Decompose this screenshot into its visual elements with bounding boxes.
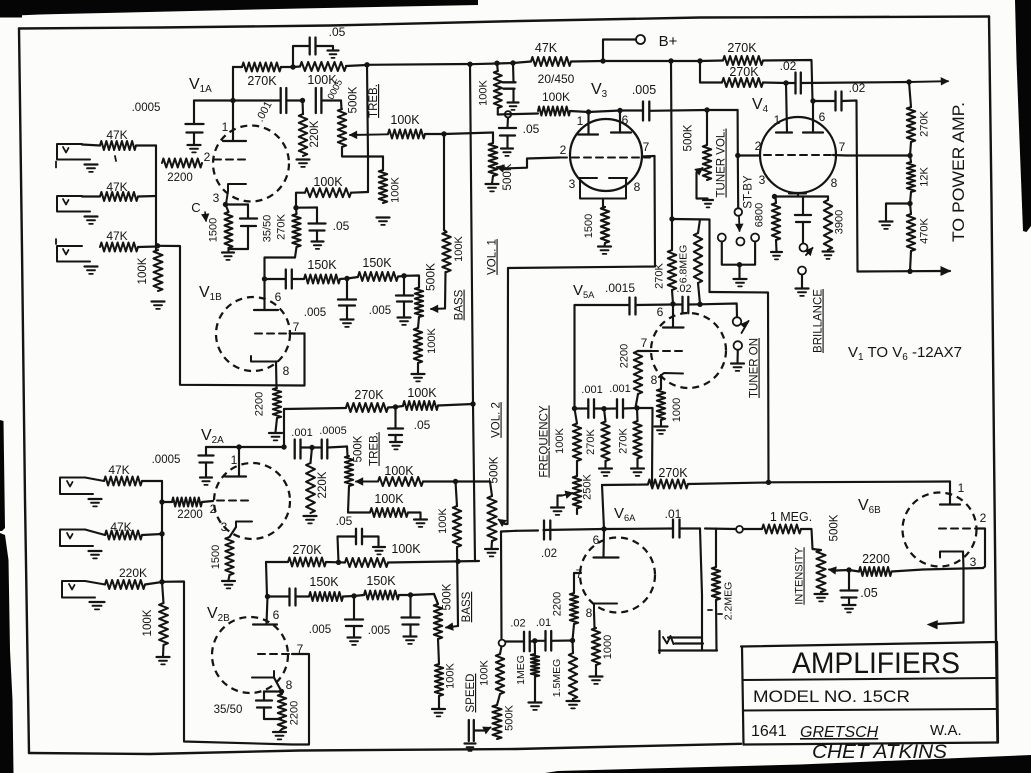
wire long vertical bus ch1 [470,64,473,404]
svg-text:.001: .001 [254,99,275,124]
svg-text:100K: 100K [407,386,437,400]
wire V6A grid corner [602,485,604,529]
wire freq out [637,408,653,484]
wire to V1A grid [158,246,305,386]
border frame [19,17,989,29]
wiper arrow speed [484,728,491,731]
wire [138,245,158,248]
ground [348,636,361,638]
svg-text:AMPLIFIERS: AMPLIFIERS [792,647,960,680]
wire plate to top rail [232,67,234,101]
svg-text:270K: 270K [658,466,688,480]
wire vol1 vertical [367,65,368,157]
resistor 2200 grid stopper V2A [172,498,202,507]
node [634,405,639,410]
ground [414,518,427,520]
svg-text:220K: 220K [119,566,147,580]
svg-text:1500: 1500 [208,218,220,242]
ground [590,675,603,677]
wiper arrow freq [562,493,573,496]
ground [734,278,747,280]
node [572,406,577,411]
wire to V2B grid loop [162,582,309,745]
switch TUNER ON contact 1 [733,317,742,326]
cathode V6B [940,552,963,558]
svg-text:500K: 500K [442,583,454,610]
jack J1 [57,144,90,160]
svg-text:7: 7 [641,336,648,350]
ground [598,245,611,247]
ground [398,316,411,318]
plate 2 V3 [619,111,621,133]
svg-text:500K: 500K [489,456,501,483]
wire to tremolo jack [700,529,702,651]
wiper arrow vol1 to V3 grid [497,167,504,169]
jack J5 [60,530,93,547]
svg-text:100K: 100K [542,90,570,104]
wire down to speed row [500,532,503,640]
ground [152,300,165,302]
svg-text:6: 6 [593,533,600,547]
svg-text:100K: 100K [390,113,420,127]
title block box [741,642,997,647]
svg-text:100K: 100K [478,79,490,105]
wire plate row V2A [206,446,239,448]
svg-text:1MEG: 1MEG [515,655,527,685]
wire to V4 grid [737,110,739,156]
svg-text:250K: 250K [582,473,594,499]
svg-text:12K: 12K [919,167,931,187]
ground jack J4 [89,498,102,500]
node [586,109,591,114]
svg-text:FREQUENCY: FREQUENCY [539,405,551,478]
svg-text:2200: 2200 [289,701,301,725]
jack J6 [62,581,95,598]
node [570,638,575,643]
svg-text:270K: 270K [247,74,277,88]
ground [412,373,425,375]
ground [501,147,513,149]
svg-text:20/450: 20/450 [538,72,575,86]
cathode V1A [226,184,246,204]
svg-text:2: 2 [560,143,567,157]
svg-text:500K: 500K [504,704,516,730]
svg-text:6: 6 [622,113,629,127]
svg-text:7: 7 [643,140,650,154]
svg-text:2200: 2200 [177,509,203,521]
ground [465,742,476,744]
ground [843,604,856,606]
wire jack bus 1 [155,146,157,251]
node [393,404,398,409]
svg-text:150K: 150K [362,256,392,270]
svg-text:100K: 100K [374,492,404,506]
plate V5A [672,304,674,327]
svg-text:SPEED: SPEED [465,674,477,713]
svg-text:8: 8 [651,373,658,387]
node plate V2B [265,594,270,599]
svg-text:.005: .005 [369,305,391,317]
svg-text:150K: 150K [366,574,396,588]
capacitor coupling V2B [268,595,290,597]
cathode V2A [236,522,252,528]
svg-text:3: 3 [213,191,220,205]
svg-text:2200: 2200 [254,392,266,416]
node [601,406,606,411]
wire [82,145,100,146]
svg-text:INTENSITY: INTENSITY [794,547,806,605]
cathode V1B [251,356,277,362]
wire tuner line to V6B [710,292,769,482]
capacitor coupling V1B [265,278,286,280]
svg-text:.05: .05 [523,122,540,136]
svg-text:2: 2 [755,139,762,153]
node plate V1A [230,98,235,103]
wire .0015 to frequency row [575,304,630,306]
plate 2 V4 [812,101,814,133]
jack J3 [57,246,90,262]
node [735,153,740,158]
node [441,131,446,136]
ground [771,251,782,253]
svg-text:1000: 1000 [671,398,683,422]
wiper arrow vol2 [499,520,506,525]
svg-text:1: 1 [231,453,238,467]
wiper arrow bass ch2 [446,626,458,628]
svg-text:V6B: V6B [858,497,881,516]
node [336,560,341,565]
rail 270K-100K V2B [266,562,267,597]
svg-text:.05: .05 [414,418,431,432]
svg-text:6: 6 [657,305,664,319]
wire V6A rail left [544,529,605,530]
node [532,638,537,643]
svg-text:100K: 100K [384,464,414,478]
wire cathode row [923,568,983,570]
ground [703,199,713,201]
svg-text:MODEL NO. 15CR: MODEL NO. 15CR [753,687,910,706]
svg-text:47K: 47K [108,463,129,477]
ground jack J6 [90,601,105,603]
svg-text:V2A: V2A [201,427,224,446]
svg-text:1: 1 [774,113,781,127]
ground [567,700,580,702]
node V4 plate b junction [810,98,815,103]
svg-text:.005: .005 [304,307,326,319]
node [772,194,777,199]
resistor 2200 grid stopper V1A [162,159,202,168]
switch lever [738,217,741,231]
svg-text:1: 1 [222,120,229,134]
svg-text:100K: 100K [554,427,566,453]
plate V2B [267,597,268,625]
svg-text:6: 6 [273,608,280,622]
svg-text:1641: 1641 [751,723,787,740]
svg-text:.001: .001 [609,383,630,395]
svg-text:.005: .005 [632,83,656,97]
svg-text:1: 1 [577,114,584,128]
node [670,301,675,306]
svg-text:V3: V3 [591,81,608,100]
ground [823,250,834,252]
ground [390,441,402,443]
plate V6B [940,503,960,505]
wire grid V6A [574,573,581,593]
node [262,276,267,281]
svg-text:220K: 220K [317,471,329,498]
svg-text:100K: 100K [426,327,438,353]
plate V1A [223,140,246,142]
svg-text:.0005: .0005 [319,425,347,437]
svg-text:.0005: .0005 [132,102,161,114]
svg-text:3: 3 [221,520,228,534]
svg-text:3: 3 [970,555,977,569]
svg-text:7: 7 [293,320,300,334]
wire vol2 wiper to V3 grid [505,156,655,524]
node [846,567,851,572]
svg-text:270K: 270K [654,262,666,288]
svg-text:.01: .01 [536,617,551,629]
svg-text:100K: 100K [437,507,449,533]
svg-text:BRILLANCE: BRILLANCE [813,289,825,353]
svg-text:6: 6 [275,290,282,304]
node [697,58,702,63]
wire arrow to power amp [801,82,909,83]
node [309,445,314,450]
wire [265,247,297,279]
svg-text:35/50: 35/50 [262,215,274,243]
ground jack J5 [89,550,102,552]
switch contacts [718,234,726,242]
svg-text:6800: 6800 [754,203,766,227]
triode V3 [570,119,642,191]
triode V1B [216,297,290,371]
triode V6B [903,493,977,567]
ground [529,701,542,703]
title row line 1 [742,678,995,680]
svg-text:.05: .05 [329,25,346,39]
svg-text:2: 2 [204,150,211,164]
cathode V4 [789,194,806,197]
svg-text:V2B: V2B [207,605,230,624]
terminal B+ [636,35,645,44]
jack J4 [60,478,93,495]
node [455,559,460,564]
svg-text:1 MEG.: 1 MEG. [770,510,812,524]
svg-text:8: 8 [831,176,838,190]
svg-text:.05: .05 [336,514,353,528]
svg-text:TREB.: TREB. [369,432,381,466]
svg-text:.0015: .0015 [605,281,635,295]
ground [432,708,445,710]
svg-text:.001: .001 [291,427,312,439]
svg-text:150K: 150K [309,575,339,589]
svg-text:47K: 47K [535,41,558,55]
node [290,64,295,69]
ground [377,216,390,218]
node [159,531,164,536]
wire intensity rail [705,527,736,530]
svg-text:.05: .05 [860,586,877,600]
node [281,444,286,449]
ground [341,318,354,320]
svg-text:1000: 1000 [602,635,614,659]
ground [188,144,201,146]
wire [82,195,100,197]
svg-text:C: C [191,200,200,215]
node [494,61,499,66]
ground jack J3 [85,265,98,267]
svg-text:500K: 500K [424,263,438,291]
svg-text:.02: .02 [849,81,866,95]
wiper arrow tuner vol [697,168,703,173]
ground [655,425,668,427]
jack J2 [57,196,90,212]
ground [312,240,324,242]
svg-text:150K: 150K [307,258,337,272]
svg-text:2.2MEG: 2.2MEG [723,582,735,621]
svg-text:2200: 2200 [619,344,631,368]
node [907,269,912,274]
svg-text:1500: 1500 [583,214,595,238]
svg-text:35/50: 35/50 [214,704,243,716]
node cathode V1A [223,202,228,207]
node [408,592,413,597]
ground [373,546,385,548]
wire 6.8MEG node [671,61,672,219]
node junction jack bus [155,243,160,248]
svg-text:6: 6 [819,110,826,124]
svg-text:2: 2 [210,502,217,516]
ground [485,548,498,550]
svg-text:6.8MEG: 6.8MEG [678,245,690,284]
svg-text:.02: .02 [676,283,691,295]
triode V6A [580,538,655,613]
node [697,302,702,307]
node [906,79,911,84]
svg-text:270K: 270K [276,213,288,239]
svg-text:2: 2 [980,511,987,525]
plate V1B [254,309,278,311]
triode V1A [213,126,289,202]
node [470,401,475,406]
ground [631,467,644,469]
node [300,98,305,103]
plate V2A [238,447,240,476]
svg-text:100K: 100K [137,257,149,284]
svg-text:.02: .02 [541,548,557,560]
svg-text:7: 7 [839,140,846,154]
svg-text:.05: .05 [333,219,350,233]
node [364,62,369,67]
capacitor speed wiper [468,720,470,741]
node plate V1B [293,205,298,210]
ground [273,731,286,733]
node [453,479,458,484]
svg-text:100K: 100K [391,542,421,556]
svg-text:100K: 100K [313,175,343,189]
svg-text:100K: 100K [479,659,491,685]
svg-text:V5A: V5A [573,282,595,300]
wire to ground [886,204,910,222]
wire to tuner-on switch [700,304,737,318]
switch brilliance contact 2 [798,267,806,275]
node [351,593,356,598]
cathode V3 [579,178,627,199]
wire top rail to V3 [367,63,470,66]
svg-text:TREB.: TREB. [368,84,380,118]
ground [486,183,499,185]
capacitor brilliance [802,197,804,215]
switch TUNER ON lever [742,321,749,333]
svg-text:270K: 270K [292,543,322,557]
svg-text:500K: 500K [683,124,695,151]
node [159,579,164,584]
scan black band top [0,0,478,18]
ground [269,432,282,434]
node [601,526,606,531]
wire pot bottom [342,147,383,157]
svg-text:1: 1 [958,481,965,495]
svg-text:V1 TO V6 -12AX7: V1 TO V6 -12AX7 [848,344,962,363]
wire switch to ground [722,242,755,265]
svg-text:V6A: V6A [614,505,636,523]
svg-text:3900: 3900 [834,210,846,234]
wire jack bus 2 [142,480,162,482]
node [907,153,912,158]
cathode V5A [659,373,683,377]
svg-text:TUNER VOL.: TUNER VOL. [716,128,728,197]
node [279,689,284,694]
svg-text:B+: B+ [659,33,678,50]
svg-text:100K: 100K [390,176,402,202]
svg-text:47K: 47K [106,128,127,142]
ground [508,101,519,103]
svg-text:100K: 100K [142,609,154,636]
scan black strip left edge [0,420,5,531]
ground [599,467,612,469]
node [600,58,605,63]
node [668,58,673,63]
svg-text:.02: .02 [510,618,525,630]
plate 1 V3 [587,112,589,135]
svg-text:100K: 100K [453,235,465,261]
svg-text:BASS: BASS [461,591,473,622]
svg-text:1.5MEG: 1.5MEG [551,659,563,698]
svg-text:2200: 2200 [167,172,193,184]
svg-text:270K: 270K [618,427,630,453]
ground jack J1 [85,163,98,165]
resistor 100K to V3 plate [538,107,570,116]
svg-text:2200: 2200 [552,592,564,616]
terminal ring [505,111,511,117]
svg-text:270K: 270K [729,65,759,79]
ground [222,580,235,582]
node [159,499,164,504]
ground [880,220,893,222]
svg-text:V1A: V1A [189,76,212,95]
node [236,444,241,449]
wire grid V6B [977,529,986,569]
wire plate V6B feed [769,480,951,483]
svg-text:W.A.: W.A. [930,722,962,739]
triode V4 [760,117,836,193]
svg-text:270K: 270K [585,428,597,454]
ground [157,656,170,658]
cathode V2B [252,671,274,678]
node [401,273,406,278]
node [617,108,622,113]
